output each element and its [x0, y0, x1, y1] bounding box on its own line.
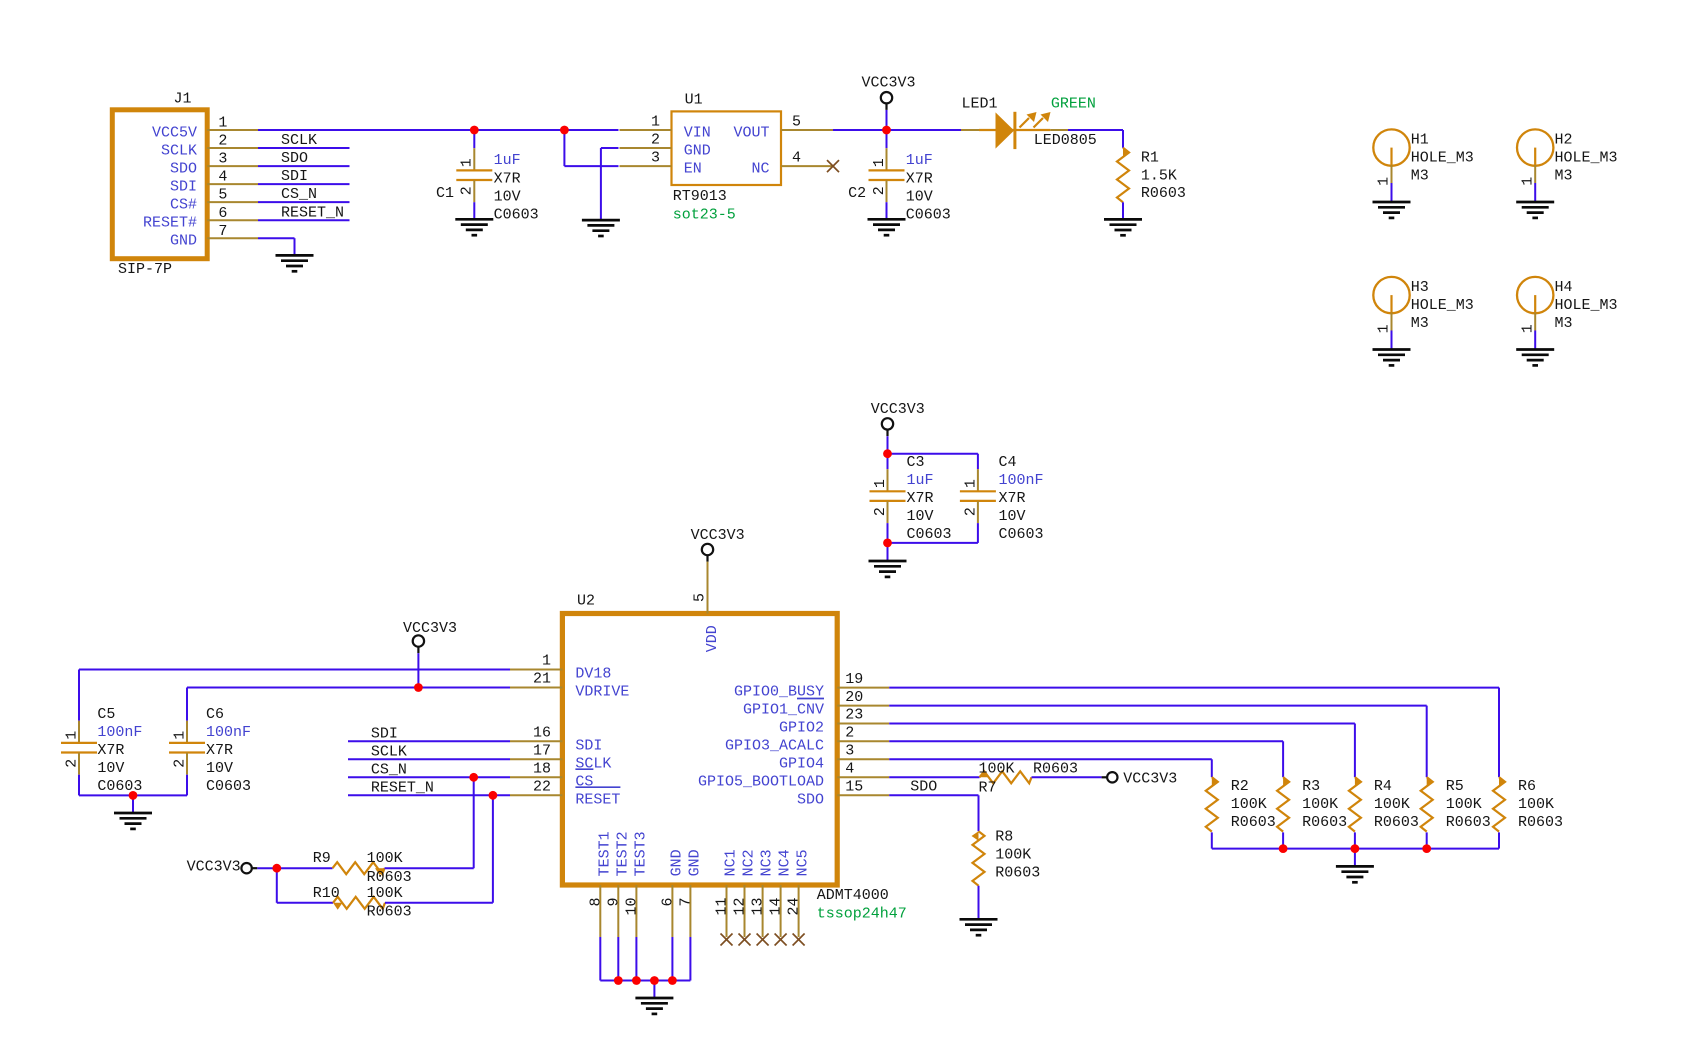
- svg-text:23: 23: [845, 707, 863, 724]
- svg-text:1: 1: [962, 479, 979, 488]
- svg-text:GPIO3_ACALC: GPIO3_ACALC: [725, 737, 824, 754]
- svg-text:R4: R4: [1374, 778, 1392, 795]
- svg-text:SDO: SDO: [281, 150, 308, 167]
- svg-text:9: 9: [605, 898, 622, 907]
- svg-text:100nF: 100nF: [206, 724, 251, 741]
- wire SCLK net label (J1.2): [258, 132, 350, 149]
- svg-text:R5: R5: [1446, 778, 1464, 795]
- capacitor C3 1uF: [870, 454, 952, 543]
- wire U1.GND to ground: [601, 148, 619, 220]
- svg-text:7: 7: [677, 898, 694, 907]
- svg-text:7: 7: [218, 223, 227, 240]
- svg-text:C5: C5: [97, 706, 115, 723]
- svg-text:RT9013: RT9013: [673, 188, 727, 205]
- svg-text:R0603: R0603: [995, 865, 1040, 882]
- svg-text:10V: 10V: [97, 760, 124, 777]
- capacitor C5 100nF: [61, 706, 142, 795]
- svg-text:SDI: SDI: [281, 168, 308, 185]
- svg-text:X7R: X7R: [907, 490, 934, 507]
- svg-text:2: 2: [871, 186, 888, 195]
- svg-text:GND: GND: [668, 849, 685, 876]
- svg-text:21: 21: [533, 671, 551, 688]
- svg-text:1: 1: [871, 158, 888, 167]
- wire SDI net label (J1.4): [258, 168, 350, 185]
- svg-text:NC: NC: [751, 161, 769, 178]
- svg-text:TEST2: TEST2: [614, 831, 631, 876]
- no-connect X: [739, 934, 751, 946]
- resistor R8 100K: [972, 829, 1041, 920]
- junction (C5/C6 gnd): [129, 791, 138, 800]
- U2 pin 2 GPIO3_ACALC: [725, 725, 889, 755]
- wire gnd stem (C5/C6): [132, 795, 134, 813]
- svg-text:1: 1: [218, 115, 227, 132]
- svg-text:R2: R2: [1231, 778, 1249, 795]
- IC U2 ADMT4000 tssop24h47: [562, 593, 906, 923]
- power VCC3V3 (top): [862, 74, 916, 130]
- U2 pin 11 NC1: [714, 849, 740, 937]
- ground (C3/C4): [869, 561, 907, 577]
- ground (R2-R6): [1336, 866, 1374, 882]
- svg-text:SCLK: SCLK: [371, 743, 407, 760]
- svg-text:22: 22: [533, 779, 551, 796]
- resistor R5 100K: [1421, 777, 1491, 849]
- junction (R bus): [1422, 844, 1431, 853]
- power VCC3V3 (VDRIVE): [403, 620, 457, 688]
- svg-text:1: 1: [1376, 177, 1393, 186]
- ground (U2): [635, 998, 673, 1014]
- svg-text:14: 14: [768, 898, 785, 916]
- wire J1.GND to ground: [258, 238, 295, 255]
- svg-text:X7R: X7R: [906, 170, 933, 187]
- ground (H3): [1373, 350, 1411, 366]
- svg-text:GND: GND: [170, 233, 197, 250]
- svg-text:RESET: RESET: [575, 791, 620, 808]
- mounting hole H2 HOLE_M3: [1517, 129, 1618, 201]
- ground (H4): [1516, 350, 1554, 366]
- svg-text:R0603: R0603: [1033, 760, 1078, 777]
- overbar CS: [575, 768, 593, 770]
- svg-text:R3: R3: [1302, 778, 1320, 795]
- svg-text:GND: GND: [686, 849, 703, 876]
- U2 pin 10 TEST3: [623, 831, 649, 937]
- wire C3/C4 bottom: [888, 542, 978, 544]
- svg-text:VDRIVE: VDRIVE: [575, 684, 629, 701]
- svg-text:2: 2: [171, 759, 188, 768]
- svg-text:C0603: C0603: [999, 526, 1044, 543]
- svg-text:1.5K: 1.5K: [1141, 167, 1177, 184]
- svg-text:C0603: C0603: [907, 526, 952, 543]
- U2 pin 7 GND: [677, 849, 703, 937]
- svg-text:SIP-7P: SIP-7P: [118, 261, 172, 278]
- power VCC3V3 (U2 VDD): [691, 527, 745, 562]
- svg-text:U2: U2: [577, 593, 595, 610]
- U2 pin 6 GND: [659, 849, 685, 937]
- svg-text:RESET_N: RESET_N: [281, 204, 344, 221]
- junction at U1 branch: [560, 126, 569, 135]
- svg-text:2: 2: [651, 132, 660, 149]
- junction (CS_N/R9): [469, 773, 478, 782]
- svg-text:X7R: X7R: [97, 742, 124, 759]
- svg-text:4: 4: [845, 761, 854, 778]
- junction (R bus): [1279, 844, 1288, 853]
- svg-text:1: 1: [872, 479, 889, 488]
- ground (C2): [868, 219, 906, 235]
- svg-text:100K: 100K: [367, 850, 403, 867]
- svg-text:20: 20: [845, 689, 863, 706]
- svg-text:2: 2: [63, 759, 80, 768]
- wire SDO net label (J1.3): [258, 150, 350, 167]
- svg-text:10V: 10V: [206, 760, 233, 777]
- pin 5 VDD: [692, 562, 721, 653]
- LED LED1 GREEN LED0805: [961, 96, 1097, 150]
- capacitor C1 1uF: [436, 130, 539, 223]
- capacitor C4 100nF: [960, 454, 1044, 543]
- wire R7 to VCC3V3: [1032, 776, 1102, 778]
- ground (H2): [1516, 202, 1554, 218]
- resistor R3 100K: [1277, 777, 1347, 849]
- wire VCC3V3 to LED1: [887, 129, 962, 131]
- wire RESET_N net label (J1.6): [258, 204, 350, 221]
- svg-text:SDO: SDO: [910, 779, 937, 796]
- svg-text:VCC3V3: VCC3V3: [1123, 770, 1177, 787]
- svg-text:SCLK: SCLK: [161, 143, 197, 160]
- svg-text:10V: 10V: [906, 188, 933, 205]
- svg-text:R1: R1: [1141, 149, 1159, 166]
- U2 pin 20 GPIO1_CNV: [743, 689, 889, 719]
- wire TEST/GND pins to ground bus: [600, 937, 690, 981]
- ground (C5/C6): [114, 813, 152, 829]
- svg-text:1: 1: [63, 731, 80, 740]
- resistor R9 100K: [313, 850, 412, 886]
- svg-text:R0603: R0603: [367, 869, 412, 886]
- svg-text:VCC3V3: VCC3V3: [403, 620, 457, 637]
- svg-text:LED0805: LED0805: [1034, 132, 1097, 149]
- svg-text:1uF: 1uF: [906, 152, 933, 169]
- svg-text:8: 8: [587, 898, 604, 907]
- svg-text:100K: 100K: [367, 885, 403, 902]
- regulator U1 RT9013: [620, 92, 834, 224]
- wire GPIO row to R2: [889, 759, 1212, 777]
- resistor R1 1.5K: [1117, 148, 1186, 220]
- overbar RESET: [575, 786, 620, 788]
- svg-text:NC2: NC2: [741, 849, 758, 876]
- capacitor C2 1uF: [848, 130, 951, 223]
- no-connect X: [721, 934, 733, 946]
- svg-text:6: 6: [218, 205, 227, 222]
- svg-text:R0603: R0603: [1374, 814, 1419, 831]
- svg-text:5: 5: [692, 593, 709, 602]
- svg-text:tssop24h47: tssop24h47: [817, 906, 907, 923]
- junction (R bus): [1351, 844, 1360, 853]
- svg-text:LED1: LED1: [962, 96, 998, 113]
- svg-text:10: 10: [623, 898, 640, 916]
- svg-text:100K: 100K: [995, 847, 1031, 864]
- svg-text:X7R: X7R: [206, 742, 233, 759]
- svg-text:VCC3V3: VCC3V3: [187, 859, 241, 876]
- power VCC3V3 (R9/R10): [187, 859, 333, 876]
- ground (H1): [1373, 202, 1411, 218]
- svg-text:M3: M3: [1411, 167, 1429, 184]
- connector J1 (SIP-7P): [112, 90, 258, 278]
- svg-text:H1: H1: [1411, 132, 1429, 149]
- svg-text:RESET#: RESET#: [143, 215, 197, 232]
- svg-text:1: 1: [1376, 324, 1393, 333]
- wire to R10: [277, 868, 333, 903]
- U2 pin 4 GPIO5_BOOTLOAD: [698, 761, 889, 791]
- svg-text:VCC3V3: VCC3V3: [862, 74, 916, 91]
- svg-text:EN: EN: [684, 161, 702, 178]
- wire to U1.EN: [564, 130, 618, 166]
- junction (gnd bus): [632, 976, 641, 985]
- svg-text:U1: U1: [685, 92, 703, 109]
- svg-text:NC5: NC5: [795, 849, 812, 876]
- wire C3/C4 top: [888, 454, 978, 469]
- svg-text:5: 5: [792, 114, 801, 131]
- svg-text:R0603: R0603: [1141, 185, 1186, 202]
- svg-text:H4: H4: [1555, 279, 1573, 296]
- svg-text:24: 24: [786, 898, 803, 916]
- U2 pin 23 GPIO2: [779, 707, 889, 737]
- svg-text:4: 4: [792, 150, 801, 167]
- ground (J1): [276, 255, 314, 271]
- svg-text:100K: 100K: [1518, 796, 1554, 813]
- svg-text:HOLE_M3: HOLE_M3: [1555, 297, 1618, 314]
- U2 pin 9 TEST2: [605, 831, 631, 937]
- power VCC3V3 (C3/C4): [871, 401, 925, 454]
- svg-text:19: 19: [845, 671, 863, 688]
- wire SDI net label (U2): [348, 725, 510, 742]
- U2 pin 8 TEST1: [587, 831, 613, 937]
- svg-text:1: 1: [542, 653, 551, 670]
- svg-text:R0603: R0603: [367, 903, 412, 920]
- svg-text:1: 1: [1519, 324, 1536, 333]
- svg-text:X7R: X7R: [999, 490, 1026, 507]
- svg-text:VCC3V3: VCC3V3: [871, 401, 925, 418]
- wire RESET_N net label (U2): [348, 779, 510, 796]
- svg-text:VCC5V: VCC5V: [152, 125, 197, 142]
- svg-text:SDO: SDO: [797, 791, 824, 808]
- resistor R6 100K: [1493, 777, 1563, 849]
- svg-text:2: 2: [218, 133, 227, 150]
- wire DV18 to C5: [79, 670, 510, 721]
- svg-text:HOLE_M3: HOLE_M3: [1555, 150, 1618, 167]
- svg-text:X7R: X7R: [494, 170, 521, 187]
- wire VDRIVE to C6: [187, 688, 510, 721]
- svg-text:R6: R6: [1518, 778, 1536, 795]
- svg-text:GREEN: GREEN: [1051, 96, 1096, 113]
- svg-text:H3: H3: [1411, 279, 1429, 296]
- junction at VCC3V3/C2: [882, 126, 891, 135]
- svg-text:2: 2: [845, 725, 854, 742]
- svg-text:SCLK: SCLK: [281, 132, 317, 149]
- svg-text:3: 3: [218, 151, 227, 168]
- svg-text:100nF: 100nF: [97, 724, 142, 741]
- power VCC3V3 (R7): [1102, 770, 1178, 787]
- wire gnd stem: [653, 981, 655, 998]
- svg-text:CS_N: CS_N: [371, 761, 407, 778]
- wire CS_N net label (U2): [348, 761, 510, 778]
- wire CS_N net label (J1.5): [258, 186, 350, 203]
- U2 pin 13 NC3: [750, 849, 776, 937]
- junction (RESET_N/R10): [489, 791, 498, 800]
- wire R10 to RESET_N: [385, 795, 493, 903]
- U2 pin 19 GPIO0_BUSY: [734, 671, 889, 701]
- svg-text:10V: 10V: [494, 188, 521, 205]
- junction (gnd bus): [650, 976, 659, 985]
- svg-text:GPIO2: GPIO2: [779, 720, 824, 737]
- U2 pin 21 VDRIVE: [510, 671, 629, 701]
- resistor R4 100K: [1349, 777, 1419, 849]
- svg-text:R0603: R0603: [1518, 814, 1563, 831]
- svg-text:C4: C4: [999, 454, 1017, 471]
- svg-text:H2: H2: [1555, 132, 1573, 149]
- svg-text:13: 13: [750, 898, 767, 916]
- wire GPIO5_BOOTLOAD to R7: [889, 776, 979, 778]
- no-connect X: [775, 934, 787, 946]
- wire GPIO row to R4: [889, 724, 1355, 778]
- svg-text:TEST3: TEST3: [632, 831, 649, 876]
- mounting hole H4 HOLE_M3: [1517, 277, 1618, 349]
- resistor R10 100K: [313, 885, 412, 921]
- mounting hole H1 HOLE_M3: [1373, 129, 1474, 201]
- svg-text:10V: 10V: [999, 508, 1026, 525]
- resistor R7 100K: [979, 760, 1079, 796]
- svg-text:3: 3: [651, 150, 660, 167]
- svg-text:6: 6: [659, 898, 676, 907]
- svg-text:DV18: DV18: [575, 666, 611, 683]
- svg-text:M3: M3: [1555, 167, 1573, 184]
- svg-text:GPIO1_CNV: GPIO1_CNV: [743, 702, 824, 719]
- ground (R8): [960, 919, 998, 935]
- svg-text:2: 2: [962, 507, 979, 516]
- U2 pin 14 NC4: [768, 849, 794, 937]
- U2 pin 22 RESET: [510, 779, 620, 809]
- svg-text:R9: R9: [313, 850, 331, 867]
- svg-text:NC1: NC1: [723, 849, 740, 876]
- svg-text:C3: C3: [907, 454, 925, 471]
- svg-text:1uF: 1uF: [907, 472, 934, 489]
- wire SCLK net label (U2): [348, 743, 510, 760]
- U2 pin 1 DV18: [510, 653, 611, 683]
- wire VCC5V net (J1.1 to U1.VIN): [258, 129, 619, 131]
- svg-text:17: 17: [533, 743, 551, 760]
- svg-text:18: 18: [533, 761, 551, 778]
- svg-text:J1: J1: [174, 90, 192, 107]
- ground (U1): [582, 220, 620, 236]
- svg-text:10V: 10V: [907, 508, 934, 525]
- svg-text:VDD: VDD: [704, 625, 721, 652]
- wire U1.VOUT to VCC3V3 rail: [833, 129, 944, 131]
- svg-text:SDO: SDO: [170, 161, 197, 178]
- overbar CNV: [797, 698, 824, 700]
- U2 pin 12 NC2: [732, 849, 758, 937]
- svg-text:NC3: NC3: [759, 849, 776, 876]
- svg-text:R0603: R0603: [1231, 814, 1276, 831]
- svg-text:C6: C6: [206, 706, 224, 723]
- svg-text:CS#: CS#: [170, 197, 197, 214]
- U2 pin 15 SDO: [797, 779, 889, 809]
- svg-text:TEST1: TEST1: [596, 831, 613, 876]
- wire R9 to CS_N: [385, 777, 474, 868]
- capacitor C6 100nF: [169, 706, 251, 795]
- svg-text:100K: 100K: [979, 760, 1015, 777]
- svg-text:C0603: C0603: [494, 206, 539, 223]
- wire GPIO row to R5: [889, 706, 1426, 778]
- svg-text:1: 1: [1519, 177, 1536, 186]
- resistor R2 100K: [1206, 777, 1276, 849]
- svg-text:100K: 100K: [1446, 796, 1482, 813]
- svg-text:1: 1: [171, 731, 188, 740]
- svg-text:M3: M3: [1555, 315, 1573, 332]
- ground (C1): [455, 219, 493, 235]
- junction (VDRIVE): [414, 683, 423, 692]
- svg-text:R8: R8: [995, 829, 1013, 846]
- svg-text:3: 3: [845, 743, 854, 760]
- svg-text:1: 1: [651, 114, 660, 131]
- svg-text:100K: 100K: [1302, 796, 1338, 813]
- svg-text:15: 15: [845, 779, 863, 796]
- no-connect X: [793, 934, 805, 946]
- no-connect X on U1.NC: [827, 160, 839, 172]
- wire gnd stem (R bus): [1354, 849, 1356, 867]
- svg-text:100K: 100K: [1231, 796, 1267, 813]
- svg-text:ADMT4000: ADMT4000: [817, 887, 889, 904]
- U2 pin 24 NC5: [786, 849, 812, 937]
- svg-text:VOUT: VOUT: [733, 125, 769, 142]
- svg-text:1: 1: [459, 158, 476, 167]
- svg-text:100K: 100K: [1374, 796, 1410, 813]
- wire SDO net label (U2.15): [889, 779, 978, 832]
- svg-text:R0603: R0603: [1302, 814, 1347, 831]
- svg-text:100nF: 100nF: [999, 472, 1044, 489]
- svg-text:C1: C1: [436, 185, 454, 202]
- svg-text:11: 11: [714, 898, 731, 916]
- svg-text:R0603: R0603: [1446, 814, 1491, 831]
- svg-text:12: 12: [732, 898, 749, 916]
- svg-text:RESET_N: RESET_N: [371, 779, 434, 796]
- svg-text:SDI: SDI: [371, 725, 398, 742]
- junction (gnd bus): [668, 976, 677, 985]
- svg-text:C2: C2: [848, 185, 866, 202]
- svg-text:GPIO5_BOOTLOAD: GPIO5_BOOTLOAD: [698, 773, 824, 790]
- svg-text:R7: R7: [979, 779, 997, 796]
- U2 pin 16 SDI: [510, 725, 602, 755]
- junction at C1: [470, 126, 479, 135]
- svg-text:2: 2: [459, 186, 476, 195]
- no-connect X: [757, 934, 769, 946]
- svg-text:GPIO4: GPIO4: [779, 755, 824, 772]
- U2 pin 18 CS: [510, 761, 593, 791]
- junction (C3 top): [883, 449, 892, 458]
- svg-text:GND: GND: [684, 143, 711, 160]
- wire LED1 to R1: [1068, 130, 1123, 148]
- junction (R9/R10): [272, 864, 281, 873]
- svg-text:M3: M3: [1411, 315, 1429, 332]
- wire GPIO row to R6: [889, 688, 1499, 778]
- svg-text:VCC3V3: VCC3V3: [691, 527, 745, 544]
- junction (gnd bus): [614, 976, 623, 985]
- wire C5/C6 bottom bus: [79, 794, 187, 796]
- mounting hole H3 HOLE_M3: [1373, 277, 1474, 349]
- svg-text:R10: R10: [313, 885, 340, 902]
- wire to ground (C3): [887, 543, 889, 561]
- svg-text:1uF: 1uF: [494, 152, 521, 169]
- svg-text:5: 5: [218, 187, 227, 204]
- svg-text:2: 2: [872, 507, 889, 516]
- svg-text:C0603: C0603: [906, 206, 951, 223]
- svg-text:C0603: C0603: [206, 778, 251, 795]
- svg-text:NC4: NC4: [777, 849, 794, 876]
